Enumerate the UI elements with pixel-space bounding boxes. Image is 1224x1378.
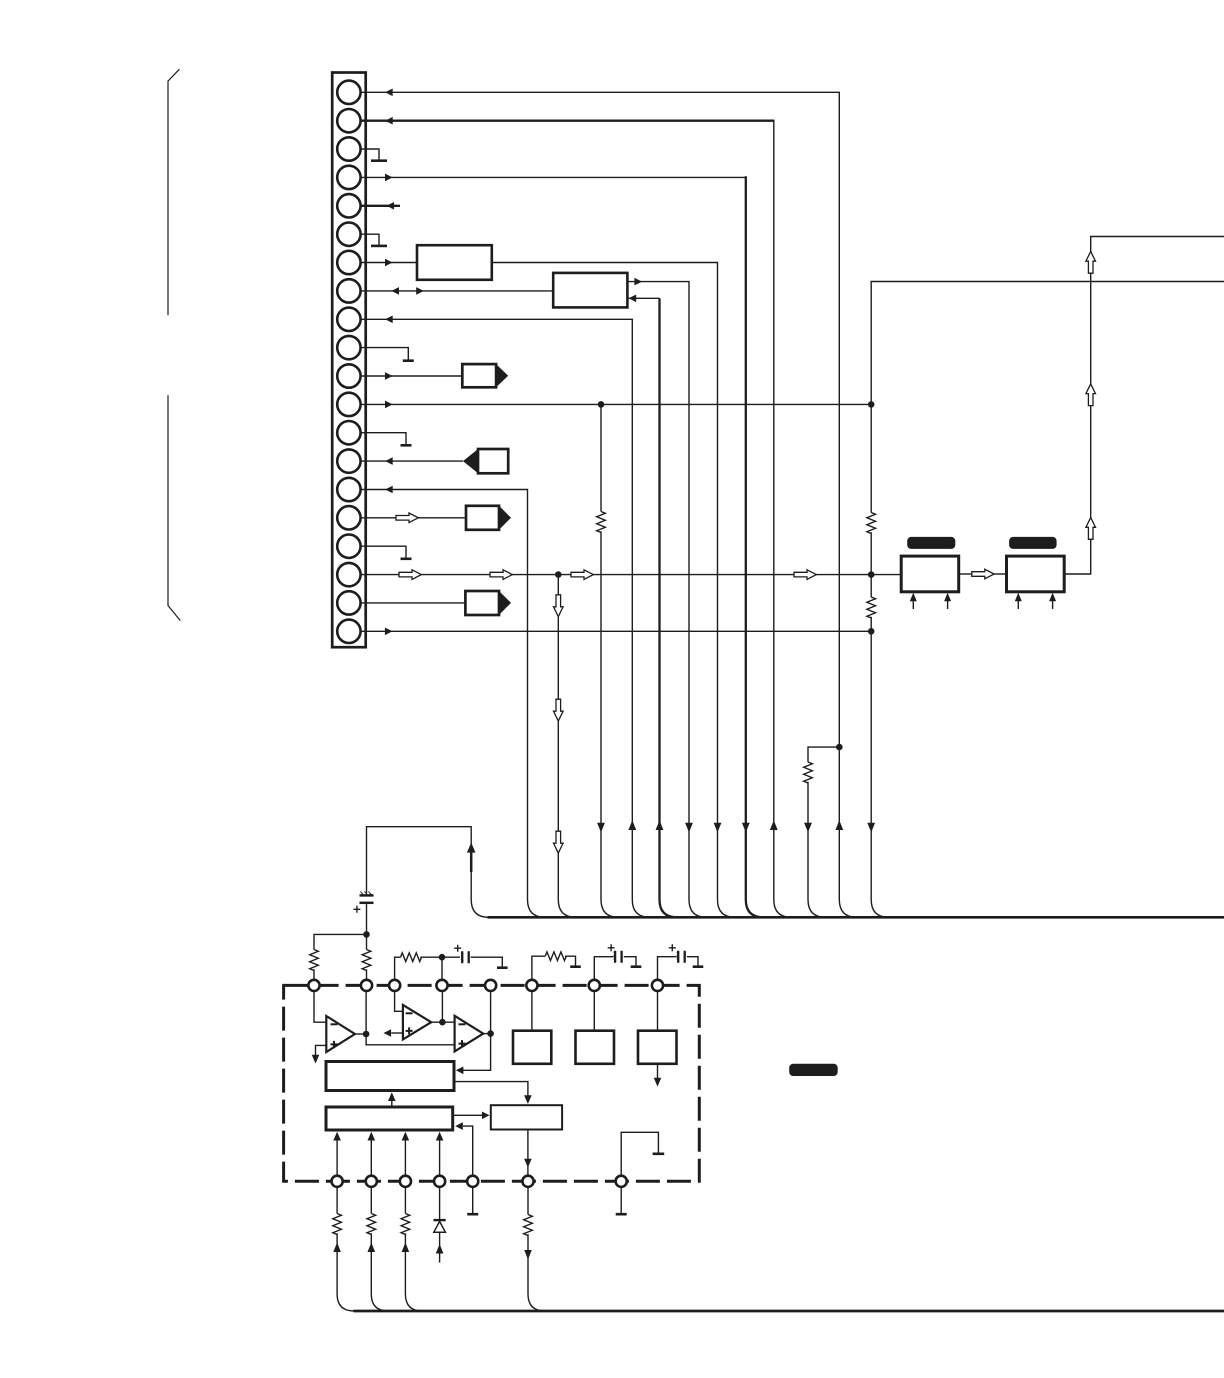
main bus (488, 916, 1224, 919)
arrowhead up on pin9 drop (628, 820, 636, 830)
resistor on pin12 drop (597, 512, 606, 533)
IC bottom pin P7 (616, 1176, 627, 1187)
arrow up into B2 right (1052, 601, 1054, 610)
resistor on x808 (804, 762, 813, 783)
arrowhead up on pin2 drop (770, 820, 778, 830)
IC pin B (361, 980, 372, 991)
arrowhead up RP2 (368, 1243, 376, 1253)
wire RP3 to bottom bus (405, 1233, 422, 1311)
connector J1 body (332, 73, 366, 648)
wire pin13 stub (361, 433, 407, 445)
wire pin16 to plug (361, 517, 467, 519)
node pin12 branch (598, 401, 605, 408)
wire RP2 to bottom bus (371, 1233, 388, 1311)
wire boxC1 out to boxC3 (454, 1082, 528, 1098)
wire pin4 horizontal (361, 176, 746, 178)
plus sign C3 (608, 944, 615, 951)
node CD (439, 954, 446, 961)
op3 minus label (459, 1023, 466, 1025)
arrowhead up RP3 (402, 1243, 410, 1253)
capacitor C1 polarized plates (360, 894, 374, 897)
wire pin12 drop lower to bus (601, 531, 619, 917)
wire pin2 drop to bus (774, 120, 792, 918)
connector pin 6 (337, 223, 360, 246)
wire pin9 to bus (361, 319, 650, 917)
op-amp U1c (455, 1016, 484, 1052)
node pin18 branch (555, 571, 562, 578)
IC bottom pin P3 (400, 1176, 411, 1187)
wire pin12 drop upper (600, 404, 602, 511)
wire C1 to node (366, 904, 368, 934)
capacitor C3 plates (615, 951, 622, 963)
arrowhead out pin4 (385, 174, 393, 182)
open arrow pin18 a (399, 570, 421, 580)
wire D3 down stub (657, 1064, 659, 1080)
plus sign C1 (353, 906, 360, 913)
node pin12 at V871 (868, 401, 875, 408)
arrowhead out pin7 (385, 259, 393, 267)
node pin18 at V871 (868, 571, 875, 578)
arrowhead up on blockA2 lower drop (656, 820, 664, 830)
resistor RC (401, 953, 422, 962)
net V871 top feed (871, 282, 1224, 513)
wire pin12 (361, 403, 872, 405)
block A1 (417, 245, 492, 280)
block B2 (1007, 556, 1065, 592)
open arrow pin18 d (794, 570, 816, 580)
brace label left bottom (168, 395, 180, 620)
op-amp U1a (326, 1016, 355, 1052)
arrow up into boxC2 a (336, 1140, 338, 1176)
open arrow up B2 riser b (1086, 384, 1096, 406)
arrowhead into boxC3 left (482, 1112, 490, 1120)
arrowhead into pin1 (385, 89, 393, 97)
wire pinP2 down (370, 1187, 372, 1214)
arrow up into B1 right (947, 601, 949, 610)
wire pin1 to bus (361, 92, 857, 917)
capacitor C2 plates (462, 951, 469, 963)
connector pin 10 (337, 336, 360, 359)
small box D3 (638, 1031, 677, 1064)
bottom bus (354, 1310, 1224, 1313)
arrow boxC2 to boxC1 (391, 1101, 393, 1108)
label bar above block B1 (907, 537, 955, 549)
wire pinA to op1 minus (314, 991, 326, 1023)
bus tail resistor branch wire (808, 747, 839, 762)
wire pinP7 down to ground (620, 1187, 622, 1214)
wire pin7 to block (361, 262, 418, 264)
wire blockA2 lower input from bus (660, 298, 678, 917)
arrowhead up on pin1 drop (835, 820, 843, 830)
arrowhead bidir right pin8 (416, 287, 424, 295)
wire node to RB (366, 934, 368, 949)
arrowhead down into boxC3 (524, 1095, 532, 1104)
plus sign C2 (454, 945, 461, 952)
connector pin 12 (337, 393, 360, 416)
wire pinG up (594, 957, 613, 980)
connector pin 3 (337, 137, 360, 160)
wire node to op3 plus (366, 1034, 455, 1045)
connector pin 15 (337, 478, 360, 501)
connector pin 5 (337, 194, 360, 217)
ground C3 (631, 965, 642, 968)
IC pin D (436, 980, 447, 991)
ground pin3 (371, 159, 387, 162)
arrowhead down op1 plus (312, 1055, 320, 1064)
resistor RA (310, 950, 319, 971)
node pin20 at V871 (868, 628, 875, 635)
connector pin 1 (337, 81, 360, 104)
wire pin10 stub (361, 348, 409, 360)
wire RB to pinB (366, 969, 368, 980)
ground pinP7 upper (653, 1153, 665, 1156)
wire RP6 to bottom bus (528, 1234, 545, 1311)
wire small box D1 stub (531, 991, 533, 1031)
plug P19 point (499, 591, 511, 615)
arrowhead into pin9 (385, 316, 393, 324)
connector pin 4 (337, 166, 360, 189)
IC bottom pin P5 (467, 1176, 478, 1187)
connector pin 20 (337, 620, 360, 643)
node op2 out (439, 1019, 446, 1026)
box C2 (326, 1107, 453, 1130)
resistor RF (545, 952, 566, 961)
wire RC to node CD (420, 956, 460, 958)
connector pin 7 (337, 251, 360, 274)
ground pinP5 (467, 1213, 478, 1216)
open arrow pin18 c (571, 570, 593, 580)
plug P11 point (496, 364, 508, 387)
arrowhead into boxC2 right (455, 1122, 463, 1130)
open arrow pin16 (396, 513, 418, 523)
wire boxC2 out to boxC3 (453, 1114, 482, 1116)
IC U1 dashed box (284, 985, 700, 1181)
wire pin5 stub (361, 205, 401, 207)
wire pin15 to bus (361, 490, 546, 918)
label bar above block B2 (1009, 537, 1057, 549)
open arrow up B2 riser c (1086, 251, 1096, 273)
ground pin17 (401, 557, 412, 560)
wire C3 to ground (624, 957, 636, 966)
wire pin8 to block (361, 290, 554, 292)
plug P11 body (462, 364, 496, 387)
wire pin14 to plug (361, 460, 464, 462)
box C1 (326, 1062, 454, 1091)
ground pinP7 lower (616, 1213, 627, 1216)
op2 plus label (406, 1027, 413, 1034)
wire pin17 stub (361, 546, 407, 558)
resistor R lower on V871 (867, 597, 876, 618)
wire C4 to ground (687, 957, 698, 966)
IC pin G (589, 980, 600, 991)
wire blockA1 out to bus (492, 263, 735, 918)
wire x808 to bus (808, 782, 826, 918)
wire pinP7 up to ground (621, 1132, 658, 1176)
open arrow down pin18 drop b (554, 699, 564, 721)
wire pinP3 down (404, 1187, 406, 1214)
op1 minus label (331, 1023, 338, 1025)
plug P19 body (465, 591, 499, 615)
wire pin3 stub (361, 149, 380, 160)
wire small box D2 stub (593, 991, 595, 1031)
wire op1 out node (355, 1033, 366, 1035)
wire pin6 stub (361, 234, 380, 245)
wire pinP4 down (439, 1187, 441, 1221)
wire op2 plus input (391, 1032, 403, 1034)
connector pin 16 (337, 506, 360, 529)
op1 plus label (331, 1041, 338, 1048)
box C3 (491, 1105, 562, 1129)
wire diode down stub (439, 1232, 441, 1262)
wire C2 to ground (471, 957, 503, 967)
resistor RP1 (333, 1214, 342, 1235)
wire blockA2 out top to bus (627, 282, 706, 918)
resistor RP6 (524, 1215, 533, 1236)
wire pinP6 down (527, 1187, 529, 1215)
wire RP1 to bottom bus (337, 1233, 354, 1311)
resistor R upper on V871 (867, 513, 876, 534)
connector pin 9 (337, 308, 360, 331)
arrowhead into pin14 (385, 457, 393, 465)
IC pin C (389, 980, 400, 991)
label bar lower right (789, 1064, 838, 1076)
open arrow B1 to B2 (972, 569, 994, 579)
IC bottom pin P2 (366, 1176, 377, 1187)
arrow up into boxC2 c (404, 1140, 406, 1176)
arrowhead down on pin4 drop (742, 823, 750, 833)
IC bottom pin P6 (522, 1176, 533, 1187)
node feedback (363, 931, 370, 938)
wire B2 out up to top right (1064, 237, 1224, 575)
node op1 out (363, 1031, 370, 1038)
wire into B2 (994, 573, 1006, 575)
wire pin4 drop to bus (746, 176, 764, 917)
open arrow down pin18 drop c (554, 831, 564, 853)
connector pin 13 (337, 421, 360, 444)
wire B1 out (959, 573, 972, 575)
connector pin 14 (337, 449, 360, 472)
connector pin 11 (337, 364, 360, 387)
plug P14 point (463, 449, 478, 473)
wire op1 plus input (316, 1045, 327, 1055)
open arrow pin18 b (490, 570, 512, 580)
IC bottom pin P1 (332, 1176, 343, 1187)
connector pin 17 (337, 535, 360, 558)
arrow up into boxC2 b (370, 1140, 372, 1176)
wire op2 out (431, 1021, 454, 1023)
block A2 (553, 273, 627, 308)
arrowhead up RP1 (333, 1243, 341, 1253)
arrowhead into pin2 (385, 117, 393, 125)
wire node to pinB (365, 991, 367, 1034)
arrowhead out pin11 (385, 372, 393, 380)
ground C4 (693, 965, 704, 968)
connector pin 2 (337, 109, 360, 132)
open arrow up B2 riser a (1086, 518, 1096, 540)
op-amp U1b (403, 1005, 431, 1040)
wire node CD to pinD (441, 957, 443, 980)
wire V871 to bus (871, 617, 889, 918)
wire RA to pinA (313, 969, 315, 980)
op3 plus label (459, 1040, 466, 1047)
IC pin F (526, 980, 537, 991)
plug P16 body (466, 506, 499, 530)
wire node to RA (314, 934, 367, 949)
ground pin6 (371, 245, 387, 248)
brace label left top (168, 69, 179, 315)
arrowhead down D3 stub (654, 1078, 662, 1087)
wire RF to ground (565, 956, 576, 966)
node op3 out (487, 1030, 494, 1037)
wire op3 out node (483, 1033, 490, 1035)
wire pinP5 down to ground (472, 1187, 474, 1214)
arrowhead down on V871 (867, 823, 875, 833)
IC pin H (652, 980, 663, 991)
wire pinP1 down (336, 1187, 338, 1214)
wire pin20 (361, 630, 872, 632)
resistor RP3 (401, 1214, 410, 1235)
IC pin E (485, 980, 496, 991)
bus left tip feedback riser (471, 900, 489, 918)
wire pinH up (658, 957, 677, 980)
arrowhead bidir left pin8 (391, 287, 399, 295)
IC pin A (308, 980, 319, 991)
ground C2 (497, 966, 508, 969)
wire pin18 drop to bus (558, 575, 576, 918)
ground RF (570, 965, 581, 968)
connector pin 8 (337, 279, 360, 302)
wire node to box C1 input (463, 1034, 491, 1071)
arrowhead into blockA2 (629, 295, 637, 303)
wire boxC3 down to pinP6 (527, 1130, 529, 1177)
arrowhead down on blockA2 top drop (685, 823, 693, 833)
wire pin11 to plug (361, 375, 463, 377)
arrowhead down RP6 (524, 1250, 532, 1260)
wire pinC up (395, 957, 401, 980)
arrow up into B2 left (1017, 601, 1019, 610)
resistor RP2 (367, 1214, 376, 1235)
arrowhead down on pin12 drop (597, 823, 605, 833)
wire node to pinE (490, 991, 492, 1034)
capacitor C4 plates (678, 951, 685, 963)
arrowhead into box C1 (456, 1067, 464, 1075)
arrow up into B1 left (912, 601, 914, 610)
open arrow down pin18 drop a (554, 595, 564, 617)
connector pin 19 (337, 591, 360, 614)
wire pinC to op2 minus (395, 991, 403, 1012)
wire pin18 (361, 574, 902, 576)
arrowhead out pin20 (385, 628, 393, 636)
arrowhead up on feedback riser (467, 843, 476, 853)
arrowhead into pin5 (387, 202, 395, 210)
arrowhead down on blockA1 drop (714, 823, 722, 833)
ground pin13 (401, 444, 412, 447)
arrowhead out blockA2 (634, 278, 642, 286)
diode D1 cathode bar (434, 1219, 446, 1221)
block B1 (901, 556, 959, 592)
arrowhead into pin15 (385, 486, 393, 494)
arrowhead left op2 plus (384, 1029, 392, 1037)
resistor RB (362, 950, 371, 971)
ground pin10 (403, 359, 414, 362)
wire V871 mid (870, 532, 872, 597)
plus sign C4 (669, 944, 676, 951)
arrowhead up diode stub (436, 1244, 444, 1254)
arrowhead out pin12 (385, 401, 393, 409)
wire node to pinD (441, 991, 443, 1023)
wire pinF up (532, 956, 545, 980)
op2 minus label (406, 1012, 413, 1014)
plug P14 body (478, 449, 508, 473)
arrowhead down on boxC3 out (524, 1159, 532, 1168)
wire blockA2 lower input horizontal (629, 297, 660, 299)
small box D2 (576, 1031, 615, 1064)
IC bottom pin P4 (434, 1176, 445, 1187)
small box D1 (513, 1031, 551, 1064)
arrowhead down on x808 (804, 823, 812, 833)
arrow up into boxC2 d (439, 1140, 441, 1176)
connector pin 18 (337, 563, 360, 586)
node on pin1 drop (836, 744, 843, 751)
wire pin2 horizontal (361, 120, 774, 122)
wire pin19 to plug (361, 602, 466, 604)
wire small box D3 stub (657, 991, 659, 1031)
diode D1 triangle (434, 1221, 446, 1232)
wire pinP5 up to boxC2 (463, 1126, 473, 1176)
plug P16 point (499, 506, 511, 530)
